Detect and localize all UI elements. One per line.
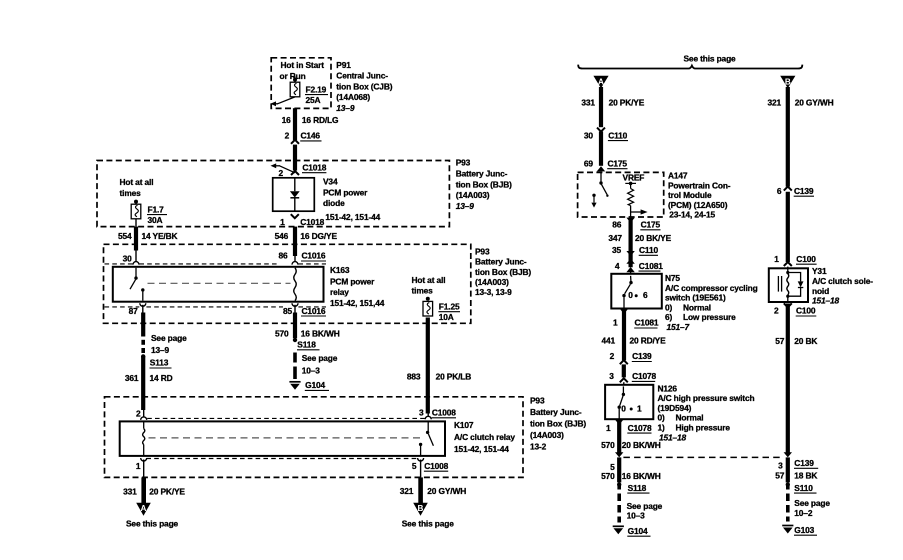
svg-text:High pressure: High pressure	[676, 423, 731, 433]
svg-text:441: 441	[601, 336, 615, 346]
svg-text:C139: C139	[632, 351, 652, 361]
svg-text:10–3: 10–3	[627, 511, 646, 521]
svg-text:tion Box (BJB): tion Box (BJB)	[530, 419, 586, 429]
svg-text:(PCM) (12A650): (PCM) (12A650)	[668, 200, 728, 210]
ground G104 (right)	[613, 526, 624, 534]
svg-text:20 BK: 20 BK	[794, 336, 817, 346]
fuse F1.25 10A	[423, 297, 433, 316]
PCM internal contact with down arrow	[591, 194, 596, 208]
svg-text:Hot at all: Hot at all	[412, 275, 446, 285]
svg-text:2: 2	[278, 168, 283, 178]
svg-text:151–7: 151–7	[667, 322, 690, 332]
svg-text:C146: C146	[301, 131, 321, 141]
connector C1008 pins 1/5 row	[141, 458, 424, 461]
svg-text:(14A003): (14A003)	[475, 277, 509, 287]
svg-text:25A: 25A	[306, 95, 321, 105]
wire 20 BK/WH circuit 570	[617, 421, 621, 453]
wire to C1078	[622, 364, 626, 377]
svg-text:331: 331	[581, 97, 595, 107]
label block P93 Battery Junction Box (BJB) (14A003) 13-2	[530, 396, 586, 452]
svg-text:(14A068): (14A068)	[336, 92, 370, 102]
svg-text:5: 5	[412, 461, 417, 471]
wire 20 GY/WH circuit 321 (B branch)	[786, 87, 790, 187]
solenoid Y31 A/C clutch solenoid box	[769, 268, 808, 302]
svg-text:C100: C100	[796, 254, 816, 264]
svg-text:30: 30	[584, 130, 594, 140]
connector C1016 pins 30/86 row	[123, 251, 326, 264]
svg-text:2: 2	[774, 306, 779, 316]
svg-text:35: 35	[612, 245, 622, 255]
svg-text:0: 0	[621, 404, 626, 414]
svg-text:570: 570	[601, 471, 615, 481]
label: Hot at all times (F1.7)	[120, 177, 154, 198]
svg-text:A147: A147	[668, 171, 688, 181]
connector C100 pin 2	[774, 303, 816, 316]
splice S118 label (right)	[627, 483, 649, 493]
connector C1078 pin 1	[606, 420, 652, 434]
wire dashed to ground G104 (right)	[617, 485, 621, 523]
label block V34 PCM power diode 151-42, 151-44	[323, 176, 381, 221]
label: See this page (top brace)	[684, 53, 737, 63]
svg-text:2: 2	[285, 131, 290, 141]
svg-text:18 BK: 18 BK	[794, 470, 817, 480]
label block Y31 A/C clutch solenoid 151-18	[812, 266, 873, 305]
splice S110 label	[794, 483, 817, 493]
ground G104	[289, 382, 300, 390]
svg-text:20 BK/WH: 20 BK/WH	[622, 440, 661, 450]
svg-text:4: 4	[615, 261, 620, 271]
svg-text:F1.7: F1.7	[148, 204, 165, 214]
connector C146 pin 2	[285, 131, 322, 144]
svg-text:PCM power: PCM power	[330, 276, 375, 286]
svg-text:57: 57	[775, 470, 785, 480]
svg-text:0): 0)	[665, 302, 673, 312]
svg-text:1: 1	[637, 404, 642, 414]
N126 internal switch	[618, 386, 626, 419]
N126 position labels 0 . 1	[621, 404, 642, 414]
svg-text:1: 1	[280, 217, 285, 227]
svg-text:C1008: C1008	[432, 408, 456, 418]
svg-text:A/C high pressure switch: A/C high pressure switch	[658, 393, 755, 403]
connector C139 pin 2	[610, 351, 652, 364]
junction box P91 Central Junction Box dashed outline	[271, 58, 331, 109]
svg-text:N75: N75	[665, 273, 680, 283]
connector C100 pin 1	[774, 254, 816, 266]
svg-text:P93: P93	[456, 158, 471, 168]
svg-text:3: 3	[778, 461, 783, 471]
relay K107 coil	[143, 421, 145, 456]
svg-text:C175: C175	[608, 159, 628, 169]
svg-text:Y31: Y31	[812, 266, 827, 276]
svg-text:Normal: Normal	[676, 413, 704, 423]
relay K107 switch contacts	[419, 421, 434, 456]
relay K107 A/C clutch relay box	[120, 421, 445, 456]
svg-text:C175: C175	[641, 220, 661, 230]
wire 14 RD circuit 361	[141, 356, 145, 410]
svg-text:See page: See page	[151, 333, 187, 343]
svg-text:S118: S118	[628, 483, 647, 493]
wire 14 YE/BK circuit 554	[134, 227, 138, 262]
svg-text:trol Module: trol Module	[668, 190, 712, 200]
wire 16 DG/YE circuit 546	[293, 227, 297, 262]
svg-text:331: 331	[123, 487, 137, 497]
connector C1008 pins 2/3 row	[136, 408, 456, 419]
svg-text:(19D594): (19D594)	[658, 403, 692, 413]
svg-text:20 BK/YE: 20 BK/YE	[635, 233, 672, 243]
svg-text:N126: N126	[658, 383, 678, 393]
switch N126 A/C high pressure switch box	[605, 385, 653, 419]
svg-text:13-3, 13-9: 13-3, 13-9	[475, 287, 512, 297]
svg-text:See page: See page	[794, 498, 830, 508]
connector C1078 pin 3	[609, 371, 656, 383]
svg-text:or Run: or Run	[280, 71, 306, 81]
svg-text:tion Box (BJB): tion Box (BJB)	[475, 267, 531, 277]
svg-text:times: times	[412, 286, 434, 296]
PCM VREF node	[623, 172, 645, 188]
label F1.7 30A	[147, 204, 167, 225]
svg-text:151–18: 151–18	[659, 432, 687, 442]
Y31 suppression diode	[788, 273, 804, 297]
svg-text:10–2: 10–2	[794, 508, 813, 518]
svg-text:86: 86	[278, 251, 288, 261]
label block K107 A/C clutch relay 151-42, 151-44	[454, 420, 515, 454]
svg-text:A/C clutch sole-: A/C clutch sole-	[812, 276, 873, 286]
label block P93 Battery Junction Box (BJB) (14A003) 13-3, 13-9	[475, 246, 531, 297]
junction box P93 Battery Junction Box dashed outline (K163)	[104, 244, 471, 323]
fuse F2.19 25A	[290, 76, 300, 97]
svg-text:C1016: C1016	[302, 251, 326, 261]
label: Hot at all times (F1.25)	[412, 275, 446, 295]
wire 20 RD/YE circuit 441	[622, 310, 626, 360]
svg-text:14 RD: 14 RD	[150, 373, 173, 383]
svg-text:6: 6	[777, 186, 782, 196]
svg-text:20 PK/YE: 20 PK/YE	[149, 487, 185, 497]
svg-text:151-42, 151-44: 151-42, 151-44	[325, 212, 380, 222]
svg-text:1): 1)	[658, 423, 666, 433]
wire to C175	[599, 132, 603, 166]
connector C110 pin 35	[612, 245, 658, 264]
svg-text:13–9: 13–9	[456, 201, 475, 211]
connector C1018 pin 1	[280, 214, 324, 227]
svg-text:69: 69	[584, 159, 594, 169]
brace spanning arrows A and B	[578, 65, 802, 69]
off-page arrow A	[136, 503, 151, 516]
svg-text:C100: C100	[796, 306, 816, 316]
svg-text:C1018: C1018	[300, 217, 324, 227]
svg-text:A: A	[141, 504, 147, 513]
svg-text:diode: diode	[323, 198, 345, 208]
svg-text:570: 570	[275, 328, 289, 338]
svg-text:0: 0	[628, 290, 633, 300]
label block N126 A/C high pressure switch (19D594)	[658, 383, 755, 442]
svg-text:0): 0)	[658, 413, 666, 423]
svg-text:tion Box (BJB): tion Box (BJB)	[456, 179, 512, 189]
label See page 10-3	[302, 353, 338, 376]
svg-text:See this page: See this page	[126, 519, 179, 529]
wire 20 BK/YE circuit 347	[628, 219, 632, 267]
svg-text:3: 3	[419, 408, 424, 418]
svg-text:S118: S118	[297, 340, 316, 350]
svg-text:321: 321	[767, 97, 781, 107]
connector dashed line C1016 bottom	[105, 306, 327, 308]
relay K163 coil	[294, 268, 297, 301]
connector dashed line C1016 top	[105, 263, 327, 265]
PCM internal signal arrow	[631, 209, 648, 214]
svg-text:86: 86	[612, 220, 622, 230]
svg-text:S110: S110	[794, 483, 813, 493]
svg-text:F2.19: F2.19	[306, 84, 327, 94]
wire 20 PK/LB circuit 883	[426, 318, 430, 414]
wire into BJB	[293, 145, 297, 171]
connector dashed line C1008 top	[147, 417, 425, 419]
svg-text:K163: K163	[330, 265, 350, 275]
svg-text:30: 30	[123, 253, 133, 263]
ground G103	[782, 526, 793, 534]
wire to C100	[786, 192, 790, 262]
svg-text:P93: P93	[475, 246, 490, 256]
svg-text:16 DG/YE: 16 DG/YE	[300, 231, 337, 241]
svg-text:C110: C110	[639, 245, 658, 255]
svg-text:10–3: 10–3	[302, 366, 321, 376]
module A147 PCM dashed outline	[578, 172, 664, 217]
label F1.25 10A	[438, 301, 460, 321]
connector C139 pin 6	[777, 186, 814, 196]
svg-text:13-2: 13-2	[530, 442, 547, 452]
off-page arrow A (top)	[593, 76, 608, 88]
svg-text:Battery Junc-: Battery Junc-	[456, 168, 508, 178]
connector C175 pin 69	[584, 159, 628, 172]
pins 87/85 arcs and labels	[140, 303, 298, 306]
svg-text:C139: C139	[794, 458, 814, 468]
wire 20 BK circuit 57	[786, 304, 790, 453]
svg-text:16 RD/LG: 16 RD/LG	[302, 115, 339, 125]
svg-text:C139: C139	[794, 186, 814, 196]
svg-text:1: 1	[774, 254, 779, 264]
svg-text:883: 883	[407, 371, 421, 381]
svg-text:C1078: C1078	[628, 423, 652, 433]
svg-text:A: A	[598, 77, 604, 86]
wire stubs into K107	[144, 410, 429, 417]
svg-text:2: 2	[136, 408, 141, 418]
label See page 10-2	[794, 498, 830, 518]
svg-text:151-42, 151,44: 151-42, 151,44	[330, 298, 385, 308]
wire dashed to ground G103	[786, 485, 790, 522]
junction box P93 Battery Junction Box dashed outline (K107)	[105, 397, 524, 478]
svg-text:20 GY/WH: 20 GY/WH	[795, 97, 834, 107]
svg-text:16 BK/WH: 16 BK/WH	[301, 328, 340, 338]
svg-text:Central Junc-: Central Junc-	[336, 71, 388, 81]
svg-text:23-14, 24-15: 23-14, 24-15	[669, 210, 715, 220]
svg-text:546: 546	[275, 231, 289, 241]
svg-text:(14A003): (14A003)	[530, 430, 564, 440]
PCM internal switch	[599, 174, 608, 197]
svg-text:C1008: C1008	[424, 461, 448, 471]
svg-text:1: 1	[606, 423, 611, 433]
relay K163 switch contacts	[130, 268, 145, 301]
wire stubs out of K107	[144, 460, 421, 478]
svg-text:13–9: 13–9	[336, 103, 355, 113]
wire 20 PK/YE circuit 331 (to arrow A)	[141, 477, 146, 503]
svg-text:C1018: C1018	[302, 163, 326, 173]
svg-text:Hot at all: Hot at all	[120, 177, 154, 187]
wire 16 BK/WH circuit 570 to S118	[617, 457, 621, 486]
wire pin 85 to splice S118	[293, 305, 297, 342]
svg-text:B: B	[418, 504, 424, 513]
svg-text:554: 554	[118, 231, 132, 241]
wire break + splice S113	[141, 340, 145, 359]
svg-text:See this page: See this page	[684, 53, 737, 63]
PCM internal resistor	[628, 189, 634, 217]
svg-text:See page: See page	[302, 353, 338, 363]
N75 position labels 0 . 6	[628, 290, 648, 300]
svg-text:VREF: VREF	[623, 172, 645, 182]
wire pin 87 to splice S113	[142, 305, 144, 337]
svg-text:Normal: Normal	[683, 302, 711, 312]
svg-text:570: 570	[601, 440, 615, 450]
svg-text:Battery Junc-: Battery Junc-	[475, 257, 527, 267]
svg-text:Low pressure: Low pressure	[683, 312, 736, 322]
svg-text:14 YE/BK: 14 YE/BK	[142, 231, 178, 241]
svg-text:Powertrain Con-: Powertrain Con-	[668, 180, 731, 190]
svg-text:C110: C110	[608, 130, 627, 140]
svg-text:A/C compressor cycling: A/C compressor cycling	[665, 283, 758, 293]
svg-text:C1078: C1078	[632, 371, 656, 381]
svg-text:361: 361	[125, 373, 139, 383]
label block K163 PCM power relay 151-42, 151,44	[330, 265, 385, 308]
svg-text:13–9: 13–9	[151, 345, 170, 355]
svg-text:85: 85	[283, 306, 293, 316]
svg-text:G103: G103	[794, 525, 814, 535]
svg-text:10A: 10A	[439, 312, 454, 322]
svg-text:See this page: See this page	[402, 518, 455, 528]
svg-text:Battery Junc-: Battery Junc-	[530, 407, 582, 417]
svg-text:1: 1	[136, 461, 141, 471]
svg-text:C1081: C1081	[639, 261, 663, 271]
fuse F1.7 30A	[131, 200, 141, 227]
svg-text:321: 321	[400, 486, 414, 496]
N75 internal switch	[622, 276, 632, 309]
svg-text:347: 347	[608, 233, 622, 243]
svg-text:1: 1	[613, 318, 618, 328]
svg-text:noid: noid	[812, 286, 829, 296]
connector C175 pin 86	[612, 218, 660, 230]
splice S118 label	[297, 340, 320, 350]
svg-text:K107: K107	[454, 420, 474, 430]
svg-text:20 PK/YE: 20 PK/YE	[609, 97, 645, 107]
svg-text:A/C clutch relay: A/C clutch relay	[454, 432, 515, 442]
connector junction dashed line	[615, 452, 792, 457]
svg-text:151-42, 151-44: 151-42, 151-44	[454, 444, 509, 454]
relay K163 actuation dashed line	[148, 282, 291, 284]
label F2.19 25A	[305, 84, 328, 105]
svg-text:P91: P91	[336, 60, 351, 70]
wire 16 RD/LG circuit 16	[293, 108, 297, 140]
svg-text:F1.25: F1.25	[439, 301, 460, 311]
svg-text:20 PK/LB: 20 PK/LB	[436, 371, 472, 381]
label: Hot in Start or Run	[280, 60, 325, 81]
svg-text:V34: V34	[323, 176, 338, 186]
Y31 core bars	[778, 276, 781, 292]
wire 18 BK circuit 57 to S110	[786, 457, 790, 486]
svg-text:57: 57	[775, 336, 785, 346]
svg-text:tion Box (CJB): tion Box (CJB)	[336, 81, 392, 91]
svg-text:(14A003): (14A003)	[456, 190, 490, 200]
svg-text:B: B	[785, 77, 791, 86]
label See page 13-9 / S113	[151, 333, 187, 355]
label block N75 A/C compressor cycling switch (19E561)	[665, 273, 758, 332]
connector C1018 pin 2	[278, 163, 326, 178]
pin arcs 2 and 3	[141, 416, 432, 420]
diode V34 PCM power diode box	[273, 178, 315, 211]
relay K107 actuation dashed line	[149, 437, 424, 439]
svg-text:See page: See page	[627, 501, 663, 511]
wire dashed to ground G104	[293, 353, 297, 380]
label block P91 Central Junction Box (CJB) (14A068) 13-9	[336, 60, 392, 113]
relay K163 PCM power relay box	[113, 267, 324, 302]
svg-text:Hot in Start: Hot in Start	[281, 60, 325, 70]
pins 5 and 3 C139	[610, 458, 818, 472]
svg-text:20 GY/WH: 20 GY/WH	[427, 486, 466, 496]
connector C1081 pin 4	[615, 261, 663, 272]
off-page arrow B	[413, 503, 428, 516]
switch N75 A/C compressor cycling switch box	[611, 274, 662, 309]
svg-text:6): 6)	[665, 312, 673, 322]
off-page arrow B (top)	[780, 76, 795, 88]
svg-text:16 BK/WH: 16 BK/WH	[622, 471, 661, 481]
svg-text:30A: 30A	[148, 215, 163, 225]
label block A147 Powertrain Control Module (PCM) (12A650) 23-14, 24-15	[668, 171, 731, 220]
wire 20 GY/WH circuit 321 (to arrow B)	[418, 477, 423, 503]
svg-text:2: 2	[610, 351, 615, 361]
wire 20 PK/YE circuit 331 (A branch)	[599, 87, 603, 127]
svg-text:151–18: 151–18	[812, 296, 840, 306]
svg-text:G104: G104	[305, 380, 325, 390]
connector C1081 pin 1	[613, 309, 659, 328]
svg-text:switch (19E561): switch (19E561)	[665, 293, 726, 303]
connector C110 pin 30	[584, 128, 628, 141]
svg-text:S113: S113	[150, 358, 169, 368]
wire: branch arrow up-left from C1018 node	[271, 163, 296, 172]
connector dashed line C1008 bottom	[146, 458, 417, 460]
label block P93 Battery Junction Box (BJB) (14A003) 13-9	[456, 158, 512, 212]
svg-text:relay: relay	[330, 287, 349, 297]
svg-text:PCM power: PCM power	[323, 188, 368, 198]
pin arcs 30 and 86	[133, 262, 298, 265]
junction box P93 Battery Junction Box dashed outline (V34)	[97, 161, 449, 227]
svg-text:6: 6	[643, 290, 648, 300]
svg-text:3: 3	[609, 371, 614, 381]
svg-text:16: 16	[282, 115, 292, 125]
Y31 coil	[786, 268, 789, 302]
svg-text:times: times	[120, 188, 142, 198]
wire: fuse feed arrow inside CJB	[270, 97, 295, 106]
svg-text:P93: P93	[530, 396, 545, 406]
svg-text:G104: G104	[628, 526, 648, 536]
label See page 10-3 (right)	[627, 501, 663, 521]
svg-text:C1081: C1081	[635, 318, 659, 328]
svg-text:20 RD/YE: 20 RD/YE	[630, 336, 667, 346]
